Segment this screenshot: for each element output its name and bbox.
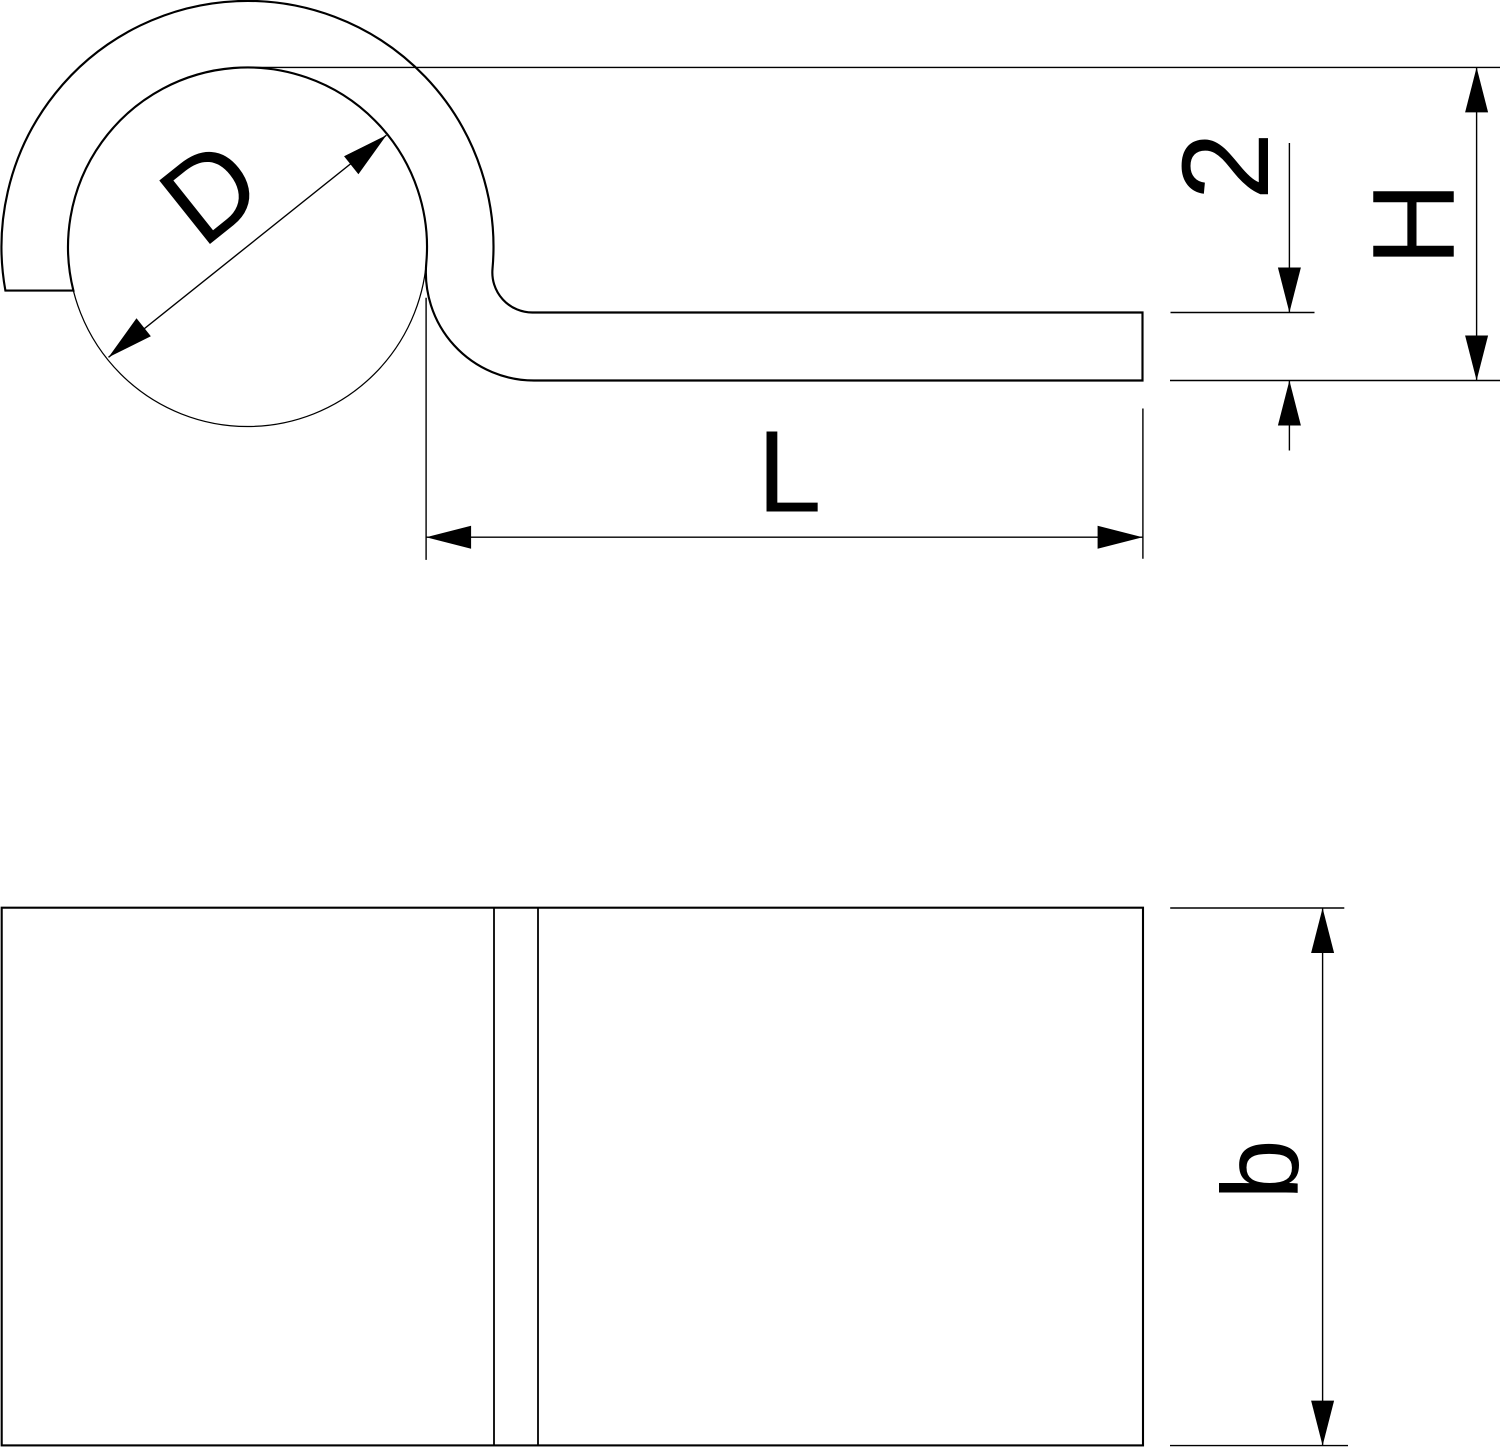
svg-text:b: b <box>1200 1139 1322 1200</box>
svg-text:H: H <box>1348 182 1479 267</box>
svg-text:2: 2 <box>1158 132 1295 200</box>
svg-text:L: L <box>757 407 822 537</box>
